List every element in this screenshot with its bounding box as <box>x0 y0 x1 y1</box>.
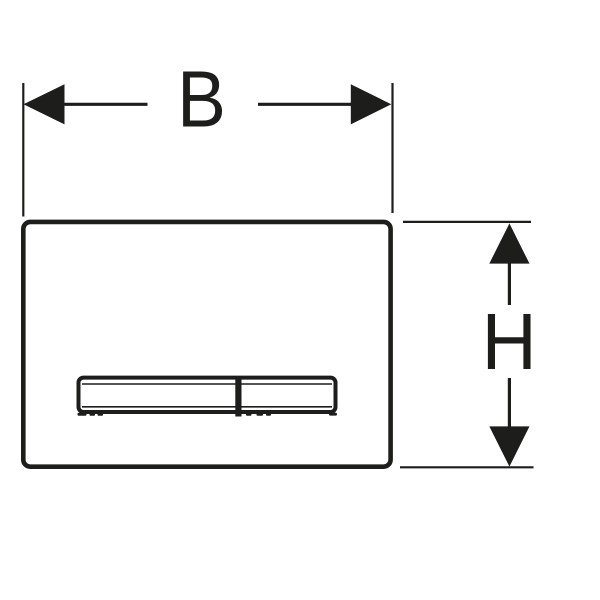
button inner bottom line <box>82 406 332 408</box>
arrowhead down (H) <box>489 426 529 466</box>
arrowhead up (H) <box>489 223 529 263</box>
button mounting foot right corner <box>329 413 337 416</box>
dimension line H lower segment <box>508 378 511 428</box>
extension line right (width B) <box>391 83 393 213</box>
extension line bottom (height H) <box>400 466 534 468</box>
button mounting feet middle <box>246 413 252 416</box>
dimension line B right segment <box>258 103 353 106</box>
button mounting feet left <box>78 413 87 416</box>
dimension line B left segment <box>62 103 148 106</box>
svg-text:B: B <box>177 56 226 144</box>
dimension line H upper segment <box>508 261 511 305</box>
arrowhead right (B) <box>351 84 392 124</box>
button inner top line <box>82 383 332 385</box>
extension line top (height H) <box>403 221 531 223</box>
svg-text:H: H <box>482 297 537 387</box>
button divider bar <box>235 376 241 417</box>
extension line left (width B) <box>22 83 24 217</box>
arrowhead left (B) <box>24 84 65 124</box>
button unit outer frame <box>79 378 336 412</box>
flush plate outline <box>23 222 390 467</box>
